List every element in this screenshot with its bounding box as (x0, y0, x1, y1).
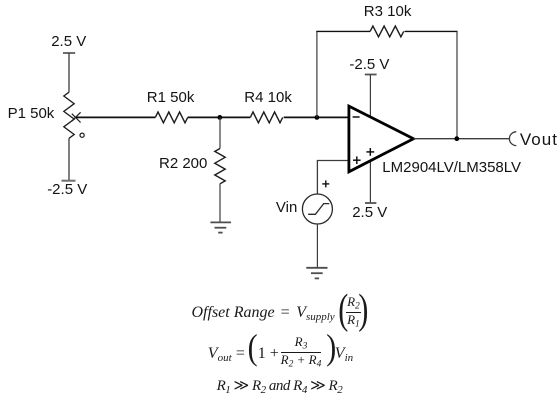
wire op-amp output (414, 138, 510, 140)
label -2.5 V (op-amp V-) (349, 57, 389, 72)
potentiometer P1 body (64, 92, 74, 138)
formula offset range (0, 0, 8, 126)
junction output node (454, 136, 459, 141)
wire Vin vertical to + input (317, 161, 349, 194)
wire op-amp V+ supply (369, 160, 371, 204)
output port Vout arc (509, 132, 516, 146)
power terminal -2.5V (op-amp V-) (365, 74, 377, 76)
ground (below Vin) (306, 268, 327, 279)
Vin waveform symbol (308, 204, 329, 215)
label R1 50k (147, 90, 195, 105)
wire top right (R3 to output branch) (405, 30, 458, 32)
label 2.5 V (pot top) (51, 34, 86, 49)
resistor R3 (370, 26, 404, 37)
resistor R1 (155, 112, 187, 123)
wire top left (to R3) (316, 30, 370, 32)
wire feedback right vertical (456, 31, 458, 138)
label 2.5 V (op-amp V+) (352, 205, 387, 220)
op-amp inverting input marker (353, 116, 360, 118)
resistor R4 (250, 112, 282, 123)
wire feedback left vertical (316, 31, 318, 117)
op-amp positive supply marker (366, 148, 374, 156)
op-amp non-inverting input marker (353, 156, 361, 164)
label -2.5 V (pot bottom) (47, 182, 87, 197)
wire R4 to op-amp inverting input (284, 116, 349, 118)
label P1 50k (8, 106, 55, 121)
label R2 200 (159, 156, 207, 171)
wire Vin to ground (316, 224, 318, 267)
Vin source plus sign (322, 180, 329, 187)
potentiometer wiper arrow (72, 112, 81, 122)
ground (below R2) (210, 222, 231, 232)
wire R2 bottom (219, 184, 221, 223)
formula vout (0, 0, 8, 144)
label R4 10k (244, 90, 292, 105)
resistor R2 (215, 149, 225, 184)
power terminal +2.5V (pot top) (63, 52, 75, 54)
power terminal 2.5V (op-amp V+) (365, 202, 376, 204)
voltage source Vin circle (302, 194, 332, 224)
wire wiper to R1 (75, 116, 155, 118)
wire op-amp V- supply (369, 75, 371, 119)
label R3 10k (364, 4, 412, 19)
wire pot top (68, 53, 70, 92)
label Vout (520, 132, 558, 147)
power terminal -2.5V (pot bottom) (62, 180, 76, 182)
junction node A (217, 115, 222, 120)
wire R1 to node A (188, 116, 251, 118)
label Vin (276, 200, 297, 215)
wire pot bottom (68, 138, 70, 181)
junction node B (feedback tap) (315, 115, 320, 120)
potentiometer wiper circle (80, 133, 84, 137)
wire R2 top (219, 117, 221, 148)
label LM2904LV/LM358LV (382, 160, 521, 175)
op-amp U1 triangle (349, 106, 414, 172)
formula resistor conditions (0, 0, 8, 36)
